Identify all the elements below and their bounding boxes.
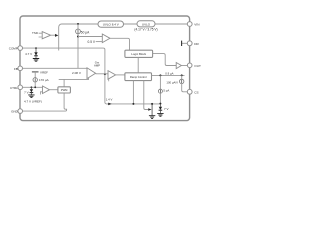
pin GND (left 4)	[18, 109, 23, 114]
block Ramp Control	[125, 73, 152, 81]
svg-text:100 µA/V: 100 µA/V	[166, 80, 178, 84]
wire PWM box to GND pin	[23, 93, 67, 111]
wire PWM comp lower stub	[108, 79, 110, 82]
svg-text:OUT: OUT	[194, 64, 201, 68]
svg-text:GND: GND	[11, 110, 19, 114]
current source I4	[159, 75, 161, 89]
block PWM osc	[58, 87, 71, 93]
node zener3 tap	[31, 86, 33, 88]
IC boundary box	[20, 16, 190, 121]
wire FB to error amp	[23, 67, 88, 69]
wire error amp output	[96, 73, 108, 75]
node 50uA output	[77, 36, 79, 38]
wire logic to driver	[137, 57, 139, 72]
svg-text:(4.17 V / 3.75 V): (4.17 V / 3.75 V)	[134, 28, 157, 32]
svg-text:4.7 V: 4.7 V	[25, 52, 32, 56]
wire 0.5V reference stub	[96, 41, 103, 43]
pin OUT	[187, 63, 192, 68]
svg-text:UVLO: UVLO	[142, 22, 151, 26]
svg-text:COMP: COMP	[9, 47, 18, 51]
wire CTRL to amp D	[23, 86, 43, 88]
wire TSD output arrow	[51, 34, 55, 36]
ground G4	[28, 95, 34, 98]
wire to comparator C input	[78, 36, 102, 38]
ground G3	[157, 114, 163, 117]
svg-text:Logic Block: Logic Block	[131, 52, 146, 56]
pill box UVLO 8.4V	[98, 21, 124, 27]
svg-text:V REF: V REF	[40, 71, 48, 75]
ground G1	[33, 59, 39, 62]
wire comparator C output to logic block	[110, 38, 130, 50]
svg-text:0.5 V: 0.5 V	[88, 40, 96, 44]
pin OVP (left 1)	[18, 46, 23, 51]
pin CS	[187, 89, 192, 94]
power tap VREF	[32, 71, 39, 73]
svg-text:PWM: PWM	[61, 88, 68, 92]
op-amp A1 error amp	[87, 68, 96, 79]
wire top rail	[59, 24, 190, 51]
wire amp D reference stub	[40, 92, 42, 95]
pin FB (left 2)	[18, 66, 23, 71]
zener D3 clamp	[159, 104, 161, 107]
svg-text:FB: FB	[14, 67, 18, 71]
svg-text:170 µA: 170 µA	[39, 78, 49, 82]
pin VIN	[187, 22, 192, 27]
svg-text:0.9 µA: 0.9 µA	[165, 72, 173, 76]
wire TSD input stubs	[39, 33, 43, 37]
svg-text:CS: CS	[194, 90, 198, 94]
ground G2	[149, 116, 155, 119]
wire 50uA branch vertical	[77, 24, 79, 68]
svg-text:VIN: VIN	[194, 23, 199, 27]
wire buffer to OUT pin	[181, 65, 187, 67]
wire driver left leg	[132, 81, 134, 104]
wire PWM comp output	[116, 74, 125, 76]
wire ramp input to error amp	[59, 78, 89, 80]
current source I3	[181, 75, 183, 79]
current source I2 170 uA	[34, 72, 36, 78]
pin CTRL (left 3)	[18, 85, 23, 90]
arrowhead on sense wire	[108, 103, 112, 106]
wire amp D output	[50, 89, 58, 91]
block Logic Block	[125, 50, 153, 57]
svg-text:4.7 V (VREF): 4.7 V (VREF)	[24, 99, 42, 103]
pill box UVLO thresholds	[137, 21, 155, 27]
svg-text:TSD: TSD	[32, 31, 39, 35]
node zener tap	[35, 47, 37, 49]
wire driver gate leg	[144, 81, 148, 110]
svg-text:UVLO 8.4 V: UVLO 8.4 V	[103, 23, 119, 27]
svg-text:7 V: 7 V	[24, 91, 29, 95]
comparator U2 thermal shutdown	[42, 32, 50, 39]
node junction on comp A output	[104, 73, 106, 75]
wire logic to buffer	[153, 54, 177, 66]
svg-text:1.4 V: 1.4 V	[106, 98, 113, 102]
svg-text:7 V: 7 V	[164, 107, 169, 111]
pin DR with gate bar	[182, 42, 188, 44]
op-amp A2	[43, 86, 50, 94]
svg-text:5 µA: 5 µA	[163, 88, 169, 92]
svg-text:DR: DR	[194, 42, 199, 46]
svg-text:2.08 V: 2.08 V	[72, 71, 82, 75]
transistor Q1 output	[151, 104, 153, 116]
svg-text:Ramp Control: Ramp Control	[130, 75, 147, 79]
svg-text:50 µA: 50 µA	[81, 30, 90, 34]
zener D1 4.7V	[35, 48, 37, 52]
buffer U5	[176, 63, 181, 69]
current source I1 50 uA	[76, 29, 81, 34]
wire osc box top branch	[63, 79, 65, 86]
zener D2 7V	[30, 87, 32, 89]
wire driver bias rail right	[152, 74, 185, 76]
svg-text:CTRL: CTRL	[10, 86, 18, 90]
wire OVP pin long path to output stage	[23, 48, 161, 104]
node rail junction	[77, 23, 79, 25]
comparator U3 0.5V	[102, 34, 110, 43]
svg-text:AMP: AMP	[94, 64, 100, 68]
comparator U4 PWM	[108, 71, 116, 80]
